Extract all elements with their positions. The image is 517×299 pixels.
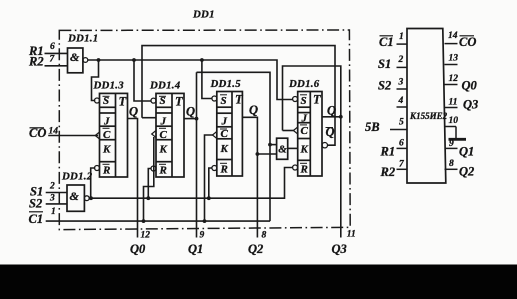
svg-text:C1: C1: [29, 212, 44, 226]
svg-text:C: C: [221, 128, 229, 140]
svg-text:J: J: [301, 112, 308, 124]
svg-text:13: 13: [449, 54, 459, 64]
svg-text:9: 9: [449, 139, 454, 149]
svg-text:&: &: [70, 189, 80, 203]
svg-text:4: 4: [398, 96, 404, 106]
svg-text:C: C: [301, 125, 309, 137]
svg-text:DD1: DD1: [192, 9, 215, 21]
svg-text:11: 11: [449, 98, 458, 108]
svg-text:&: &: [278, 144, 287, 156]
svg-text:Q: Q: [186, 105, 195, 119]
svg-text:Q1: Q1: [459, 145, 474, 159]
svg-text:S2: S2: [29, 197, 42, 211]
svg-text:Q2: Q2: [248, 242, 263, 256]
svg-text:K: K: [102, 143, 111, 155]
svg-text:2: 2: [49, 182, 55, 192]
svg-text:1: 1: [51, 207, 56, 217]
svg-text:R: R: [102, 165, 110, 177]
svg-text:R: R: [300, 164, 308, 176]
svg-text:9: 9: [200, 231, 205, 241]
svg-text:DD1.3: DD1.3: [93, 80, 125, 92]
svg-text:R: R: [220, 164, 228, 176]
svg-text:12: 12: [141, 231, 151, 241]
svg-text:DD1.2: DD1.2: [61, 170, 93, 182]
svg-text:3: 3: [49, 194, 55, 204]
svg-text:K: K: [300, 144, 309, 156]
svg-text:S2: S2: [378, 79, 391, 93]
svg-text:&: &: [70, 50, 80, 64]
svg-text:K: K: [220, 143, 229, 155]
svg-text:Q3: Q3: [332, 242, 347, 256]
svg-text:8: 8: [262, 231, 267, 241]
svg-text:S: S: [221, 95, 227, 107]
svg-text:8: 8: [449, 159, 454, 169]
svg-text:Q3: Q3: [463, 98, 478, 112]
svg-text:14: 14: [49, 127, 59, 137]
svg-text:S: S: [301, 95, 307, 107]
svg-text:1: 1: [399, 32, 404, 42]
svg-text:R: R: [159, 165, 167, 177]
svg-text:DD1.5: DD1.5: [210, 78, 242, 90]
svg-text:6: 6: [50, 42, 55, 52]
svg-text:J: J: [103, 115, 110, 127]
svg-text:10: 10: [449, 116, 459, 126]
svg-text:6: 6: [399, 139, 404, 149]
svg-text:DD1.4: DD1.4: [149, 80, 181, 92]
svg-text:DD1.6: DD1.6: [288, 78, 320, 90]
svg-text:11: 11: [347, 230, 356, 240]
svg-text:Q: Q: [129, 105, 138, 119]
svg-text:2: 2: [398, 55, 404, 65]
svg-text:R2: R2: [380, 165, 396, 179]
svg-text:K: K: [159, 143, 168, 155]
svg-text:J: J: [160, 115, 167, 127]
svg-text:Q2: Q2: [459, 165, 474, 179]
svg-text:Q1: Q1: [188, 242, 203, 256]
svg-text:C1: C1: [379, 35, 394, 49]
svg-text:14: 14: [448, 31, 458, 41]
svg-text:DD1.1: DD1.1: [67, 32, 98, 44]
svg-text:Q: Q: [249, 103, 258, 117]
svg-text:R2: R2: [28, 55, 44, 69]
svg-text:Q: Q: [327, 104, 336, 118]
svg-text:CO: CO: [459, 35, 476, 49]
svg-text:C: C: [160, 129, 168, 141]
svg-text:Q0: Q0: [130, 242, 146, 256]
svg-text:Q0: Q0: [462, 79, 478, 93]
svg-text:S: S: [160, 95, 166, 107]
svg-text:S1: S1: [378, 57, 391, 71]
svg-text:S: S: [103, 95, 109, 107]
svg-text:К155ИЕ2: К155ИЕ2: [409, 111, 448, 121]
svg-text:C: C: [103, 129, 111, 141]
svg-text:3: 3: [398, 78, 404, 88]
svg-text:12: 12: [449, 74, 459, 84]
svg-text:J: J: [221, 116, 228, 128]
svg-text:5: 5: [399, 117, 404, 127]
svg-text:5В: 5В: [365, 120, 380, 134]
svg-text:R1: R1: [380, 145, 396, 159]
